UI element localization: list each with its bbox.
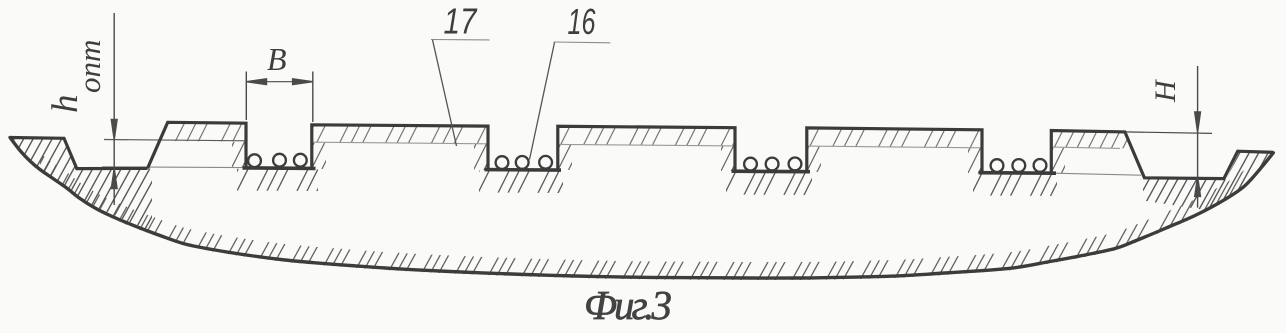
under-floor hatch cpS4 <box>951 165 1087 196</box>
rollers 16 <box>248 154 1046 172</box>
thin level line left groove upper <box>104 140 246 141</box>
hull bottom hatch band <box>0 120 1286 300</box>
hull top profile <box>10 122 1274 178</box>
under-floor hatch cpS2 <box>457 165 593 196</box>
deck hatch cpB1 <box>115 120 278 170</box>
under-floor hatch cpS1 <box>215 165 331 196</box>
recess floors <box>243 168 1057 173</box>
thin level line left groove floor ext <box>102 166 243 169</box>
dimension B <box>246 72 312 123</box>
label 17 leader <box>431 39 490 41</box>
left end wedge hatch <box>0 130 238 245</box>
floor level line right of recess 4 <box>1054 173 1141 175</box>
dimension h_opt vertical line <box>111 13 117 205</box>
svg-text:17: 17 <box>444 1 479 42</box>
svg-text:В: В <box>267 41 287 77</box>
deck hatch cpB4 <box>775 120 1007 170</box>
svg-text:H: H <box>1149 78 1182 103</box>
deck hatch cpB3 <box>525 120 757 170</box>
svg-text:16: 16 <box>568 1 597 42</box>
right end wedge hatch <box>1092 145 1286 215</box>
under-floor hatch cpS3 <box>704 165 840 196</box>
svg-text:h: h <box>45 95 86 114</box>
svg-text:опт: опт <box>72 40 107 93</box>
svg-text:Фиг.3: Фиг.3 <box>584 282 672 328</box>
deck hatch cpB2 <box>280 120 512 170</box>
label 16 leader <box>554 41 611 44</box>
deck hatch cpB5 <box>1020 120 1172 170</box>
dimension H <box>1125 66 1212 208</box>
hull bottom curve <box>10 138 1273 279</box>
deck band bottom thin lines <box>312 142 488 144</box>
